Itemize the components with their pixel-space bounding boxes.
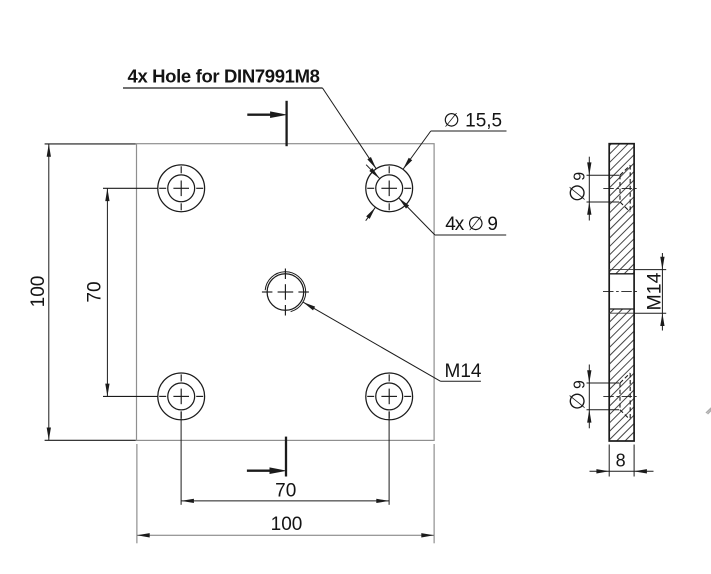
svg-text:70: 70 [275, 481, 296, 502]
svg-text:4x Hole for DIN7991M8: 4x Hole for DIN7991M8 [128, 66, 320, 87]
svg-text:∅9: ∅9 [567, 380, 590, 410]
svg-text:∅9: ∅9 [567, 172, 590, 202]
svg-text:M14: M14 [445, 361, 482, 382]
svg-text:100: 100 [28, 276, 49, 308]
svg-text:∅ 15,5: ∅ 15,5 [443, 111, 502, 132]
svg-text:8: 8 [616, 450, 626, 470]
svg-text:M14: M14 [644, 272, 666, 310]
svg-text:4x ∅ 9: 4x ∅ 9 [445, 214, 497, 235]
svg-text:100: 100 [271, 514, 303, 535]
svg-text:70: 70 [85, 281, 106, 302]
